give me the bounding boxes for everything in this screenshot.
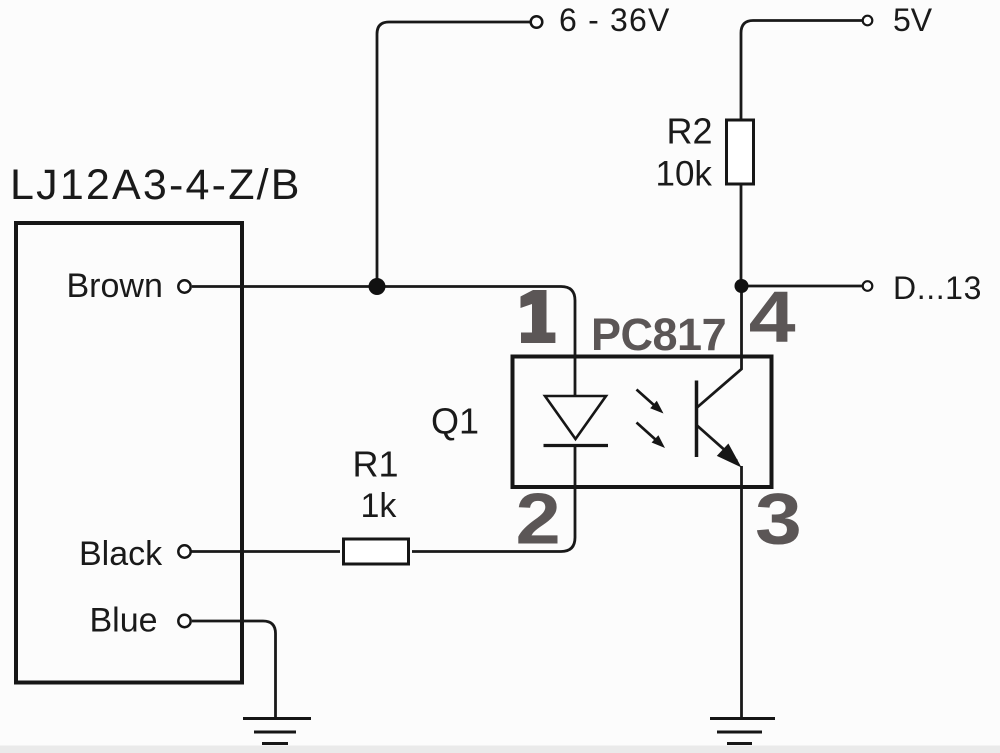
svg-text:Brown: Brown [67, 267, 163, 305]
svg-text:R1: R1 [353, 444, 399, 485]
svg-text:3: 3 [755, 478, 802, 559]
svg-text:10k: 10k [656, 155, 713, 194]
svg-text:1k: 1k [361, 487, 398, 525]
svg-text:D...13: D...13 [893, 270, 982, 306]
svg-text:LJ12A3-4-Z/B: LJ12A3-4-Z/B [10, 161, 302, 209]
svg-text:Blue: Blue [90, 602, 158, 640]
svg-text:PC817: PC817 [591, 309, 726, 360]
svg-text:Black: Black [79, 535, 163, 573]
svg-text:4: 4 [749, 276, 796, 357]
svg-text:5V: 5V [893, 2, 933, 38]
svg-text:Q1: Q1 [431, 401, 479, 442]
svg-text:2: 2 [516, 479, 561, 560]
svg-text:R2: R2 [667, 111, 713, 152]
svg-text:6 - 36V: 6 - 36V [559, 2, 671, 38]
